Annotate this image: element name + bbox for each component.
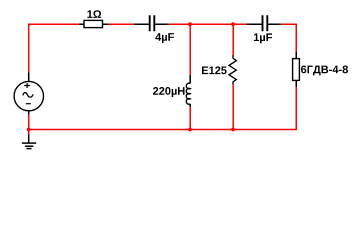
junction node at source bottom (27, 128, 31, 132)
capacitor C1 4uF (134, 15, 169, 31)
wire top segment C1 to C2 (169, 23, 247, 25)
wire source bottom lead red part (28, 114, 30, 130)
speaker box 6GDV-4-8 (293, 52, 300, 88)
wire top segment R1 to C1 (108, 23, 133, 25)
wire E125 branch upper segment (232, 24, 234, 55)
wire inductor branch lower segment (189, 107, 191, 130)
label 220uH (153, 87, 185, 97)
wire bottom rail (29, 129, 297, 131)
label 4uF (155, 33, 174, 43)
junction node at L1 bottom (188, 128, 192, 132)
ground (22, 130, 36, 149)
label 1uF (254, 33, 272, 43)
resistor R1 1Ohm (79, 20, 108, 27)
wire top-right corner segment (281, 24, 296, 51)
label 6GDV-4-8 (301, 66, 348, 76)
wire top-left corner and top segment to R1 (29, 24, 79, 72)
label 1 Ohm (87, 10, 101, 18)
wire right branch lower segment (295, 87, 297, 129)
junction node at L1 top (188, 22, 192, 26)
AC source V1 (14, 72, 43, 114)
wire E125 branch lower segment (232, 85, 234, 130)
junction node at E125 top (231, 22, 235, 26)
inductor L1 220uH (186, 75, 190, 107)
label E125 (202, 66, 227, 74)
resistor E125 (229, 55, 236, 85)
wire inductor branch upper segment (189, 24, 191, 75)
capacitor C2 1uF (247, 15, 281, 31)
junction node at E125 bottom (231, 128, 235, 132)
